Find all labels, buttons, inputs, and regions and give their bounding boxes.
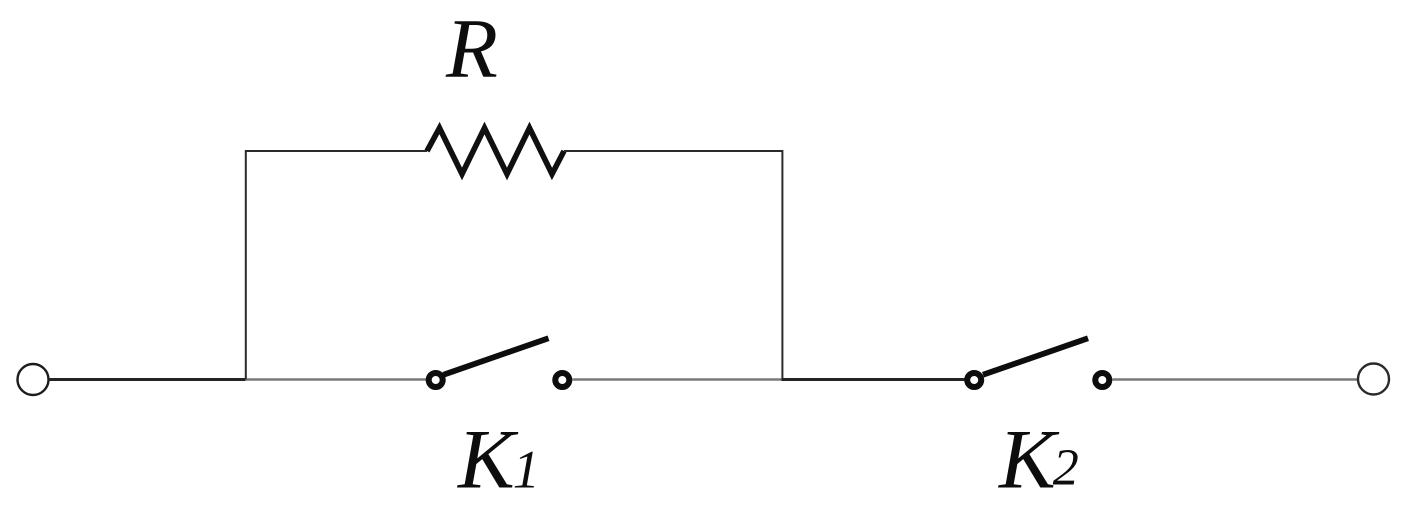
switch K2 right contact [1095, 373, 1109, 387]
wire: node B to switch K2 [781, 378, 964, 381]
wire: left terminal to node A [49, 378, 246, 381]
wire: switch K1 to node B [573, 378, 784, 381]
wire: top-right horizontal + right branch riser [564, 151, 782, 380]
right terminal [1358, 364, 1389, 395]
switch K1 lever [444, 338, 549, 375]
switch K2 [967, 338, 1109, 387]
wire: node A to switch K1 [245, 378, 426, 381]
wire: switch K2 to right terminal [1113, 378, 1359, 381]
resistor R [427, 128, 564, 174]
wire: left branch riser + top-left horizontal [246, 151, 427, 380]
switch K1 right contact [555, 373, 569, 387]
svg-text:K1: K1 [457, 413, 540, 507]
svg-text:K2: K2 [998, 413, 1079, 507]
switch K1 left contact [429, 373, 443, 387]
switch K2 left contact [967, 373, 981, 387]
switch K2 lever [983, 338, 1088, 375]
left terminal [18, 364, 49, 395]
switch K1 [429, 338, 570, 387]
svg-text:R: R [445, 2, 498, 96]
